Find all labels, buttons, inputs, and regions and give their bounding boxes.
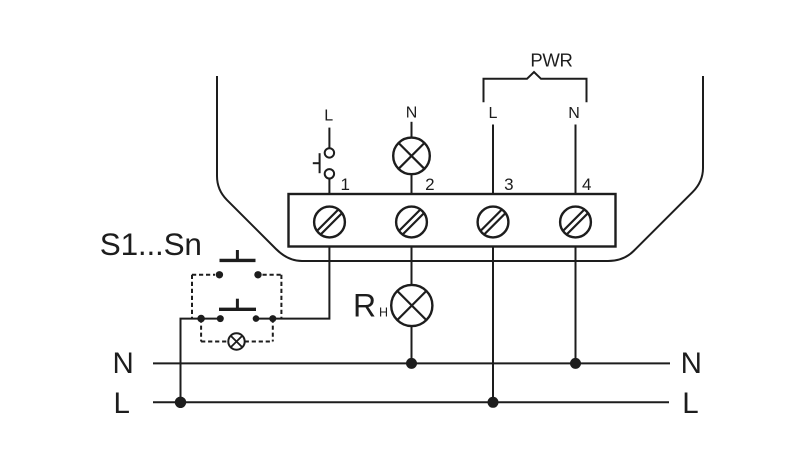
svg-text:L: L — [324, 107, 333, 124]
svg-text:S1...Sn: S1...Sn — [100, 226, 202, 262]
svg-text:PWR: PWR — [530, 50, 572, 71]
svg-text:N: N — [681, 347, 702, 380]
svg-text:3: 3 — [504, 175, 513, 194]
svg-text:L: L — [113, 387, 129, 420]
svg-text:H: H — [379, 306, 388, 320]
svg-text:1: 1 — [340, 175, 349, 194]
svg-text:R: R — [353, 288, 376, 324]
svg-text:L: L — [682, 387, 698, 420]
svg-text:N: N — [568, 105, 580, 122]
svg-text:N: N — [406, 105, 418, 122]
svg-text:2: 2 — [425, 175, 434, 194]
svg-text:N: N — [113, 347, 134, 380]
svg-text:L: L — [489, 105, 498, 122]
svg-text:4: 4 — [582, 175, 591, 194]
